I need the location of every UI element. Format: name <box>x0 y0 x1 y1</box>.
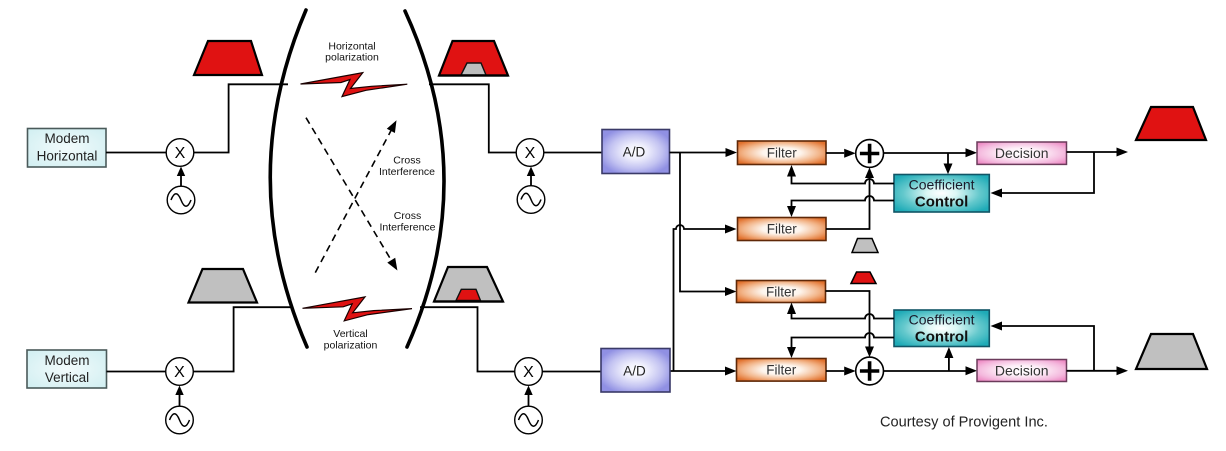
wire mixer X3 to antenna TX-V and channel <box>193 307 293 371</box>
svg-text:Coefficient: Coefficient <box>909 177 975 193</box>
wire channel to antenna RX-V and mixer X4 <box>420 307 515 371</box>
svg-text:Modem: Modem <box>44 131 89 146</box>
channel arc left <box>270 10 307 347</box>
oscillator LO4 <box>515 406 543 434</box>
wire junction A/D 1 to filter F3 (cross path) <box>680 153 737 297</box>
output constellation H (red trapezoid) <box>1136 107 1206 140</box>
antenna TX-V (gray trapezoid) <box>189 269 258 303</box>
svg-text:Horizontal: Horizontal <box>37 148 98 163</box>
filter F4 <box>737 359 827 382</box>
wire coefficient control CC1 to filter F2 <box>787 196 894 217</box>
label Cross Interference lower <box>379 210 435 234</box>
oscillator LO3 <box>166 406 194 434</box>
svg-text:X: X <box>523 364 534 381</box>
filter F2 <box>738 218 827 241</box>
wire decision D2 output <box>1067 366 1129 375</box>
wire feedback decision D1 to coefficient control CC1 <box>991 152 1095 198</box>
wire filter F1 to summer S1 <box>826 149 856 158</box>
wire oscillator LO2 to mixer X2 <box>527 167 535 186</box>
coefficient control CC2 <box>894 310 989 347</box>
svg-text:polarization: polarization <box>325 52 379 64</box>
svg-text:Control: Control <box>915 329 968 346</box>
wire modem-V to mixer X3 <box>107 371 167 373</box>
wire filter F4 to summer S2 <box>826 367 856 376</box>
oscillator LO2 <box>517 186 545 214</box>
wire A/D 2 junction to filter F2 (cross path with hop) <box>674 225 737 372</box>
channel arc right <box>405 11 444 347</box>
wire coefficient control CC2 to filter F4 <box>787 333 894 358</box>
mixer X2 <box>516 139 544 167</box>
svg-text:X: X <box>174 364 185 381</box>
block Modem Horizontal <box>28 129 107 168</box>
svg-text:Filter: Filter <box>767 222 798 237</box>
wire summer S2 to decision D2 <box>884 366 978 375</box>
antenna RX-V (gray trapezoid with red inner) <box>434 267 503 302</box>
svg-text:Control: Control <box>915 194 968 211</box>
svg-text:Coefficient: Coefficient <box>909 312 975 328</box>
wire filter F3 to summer S2 (with hops) <box>826 291 875 357</box>
wire mixer X2 to A/D 1 <box>544 152 602 154</box>
antenna RX-H (red trapezoid with gray inner) <box>439 41 508 76</box>
label Horizontal polarization <box>325 41 379 64</box>
svg-text:A/D: A/D <box>623 145 646 160</box>
svg-text:Courtesy of Provigent Inc.: Courtesy of Provigent Inc. <box>880 415 1048 431</box>
antenna TX-H (red trapezoid) <box>194 41 262 75</box>
interference symbol (small red trapezoid) <box>851 272 876 284</box>
svg-text:Decision: Decision <box>995 363 1049 379</box>
wire decision D1 output <box>1067 148 1129 157</box>
dashed arrow cross interference (bottom-left to top-right) <box>315 120 396 272</box>
mixer X4 <box>515 358 543 386</box>
svg-text:X: X <box>175 145 186 162</box>
coefficient control CC1 <box>894 175 989 213</box>
lightning bolt vertical polarization <box>303 297 413 321</box>
svg-text:A/D: A/D <box>623 364 646 379</box>
interference symbol (small gray trapezoid) <box>852 239 878 253</box>
wire oscillator LO4 to mixer X4 <box>524 386 532 407</box>
dashed arrow cross interference (top-left to bottom-right) <box>306 118 397 271</box>
svg-text:Interference: Interference <box>379 222 435 234</box>
svg-text:Modem: Modem <box>44 353 89 368</box>
svg-text:Filter: Filter <box>767 146 798 161</box>
decision block D1 <box>977 142 1067 164</box>
block Modem Vertical <box>27 350 107 388</box>
wire junction to coefficient control CC1 top <box>944 153 953 174</box>
svg-text:Cross: Cross <box>394 210 421 222</box>
svg-text:Decision: Decision <box>995 145 1049 161</box>
svg-text:X: X <box>525 145 536 162</box>
svg-text:Vertical: Vertical <box>45 370 89 385</box>
mixer X3 <box>166 358 194 386</box>
A/D converter 1 <box>602 130 670 174</box>
wire junction to coefficient control CC2 bottom <box>944 347 953 371</box>
svg-text:Interference: Interference <box>379 166 435 178</box>
wire A/D 2 to filter F4 <box>670 367 737 376</box>
wire summer S1 to decision D1 <box>884 148 978 157</box>
wire coefficient control CC1 to filter F1 <box>787 165 894 184</box>
svg-text:Vertical: Vertical <box>333 328 367 340</box>
wire feedback decision D2 to coefficient control CC2 <box>991 322 1095 371</box>
wire mixer X4 to A/D 2 <box>542 371 601 373</box>
decision block D2 <box>977 360 1067 382</box>
filter F3 <box>737 281 826 303</box>
svg-text:polarization: polarization <box>324 340 378 352</box>
wire modem-H to mixer X1 <box>106 152 167 154</box>
wire filter F2 to summer S1 (with hops) <box>826 168 874 230</box>
output constellation V (gray trapezoid) <box>1136 334 1207 369</box>
filter F1 <box>738 141 827 165</box>
wire mixer X1 to antenna TX-H and channel <box>194 84 288 152</box>
label Vertical polarization <box>324 328 378 352</box>
wire channel to antenna RX-H and mixer X2 <box>429 84 516 152</box>
summer S2 <box>856 357 884 385</box>
svg-text:Cross: Cross <box>393 155 420 167</box>
wire A/D 1 to filter F1 <box>670 148 738 157</box>
mixer X1 <box>166 139 194 167</box>
lightning bolt horizontal polarization <box>301 73 408 97</box>
wire oscillator LO1 to mixer X1 <box>177 167 185 187</box>
summer S1 <box>856 140 884 168</box>
wire oscillator LO3 to mixer X3 <box>175 386 183 407</box>
svg-text:Filter: Filter <box>766 363 797 378</box>
wire coefficient control CC2 to filter F3 <box>787 303 894 319</box>
oscillator LO1 <box>167 186 195 214</box>
label Cross Interference upper <box>379 155 435 179</box>
A/D converter 2 <box>601 349 670 393</box>
svg-text:Filter: Filter <box>766 285 797 300</box>
